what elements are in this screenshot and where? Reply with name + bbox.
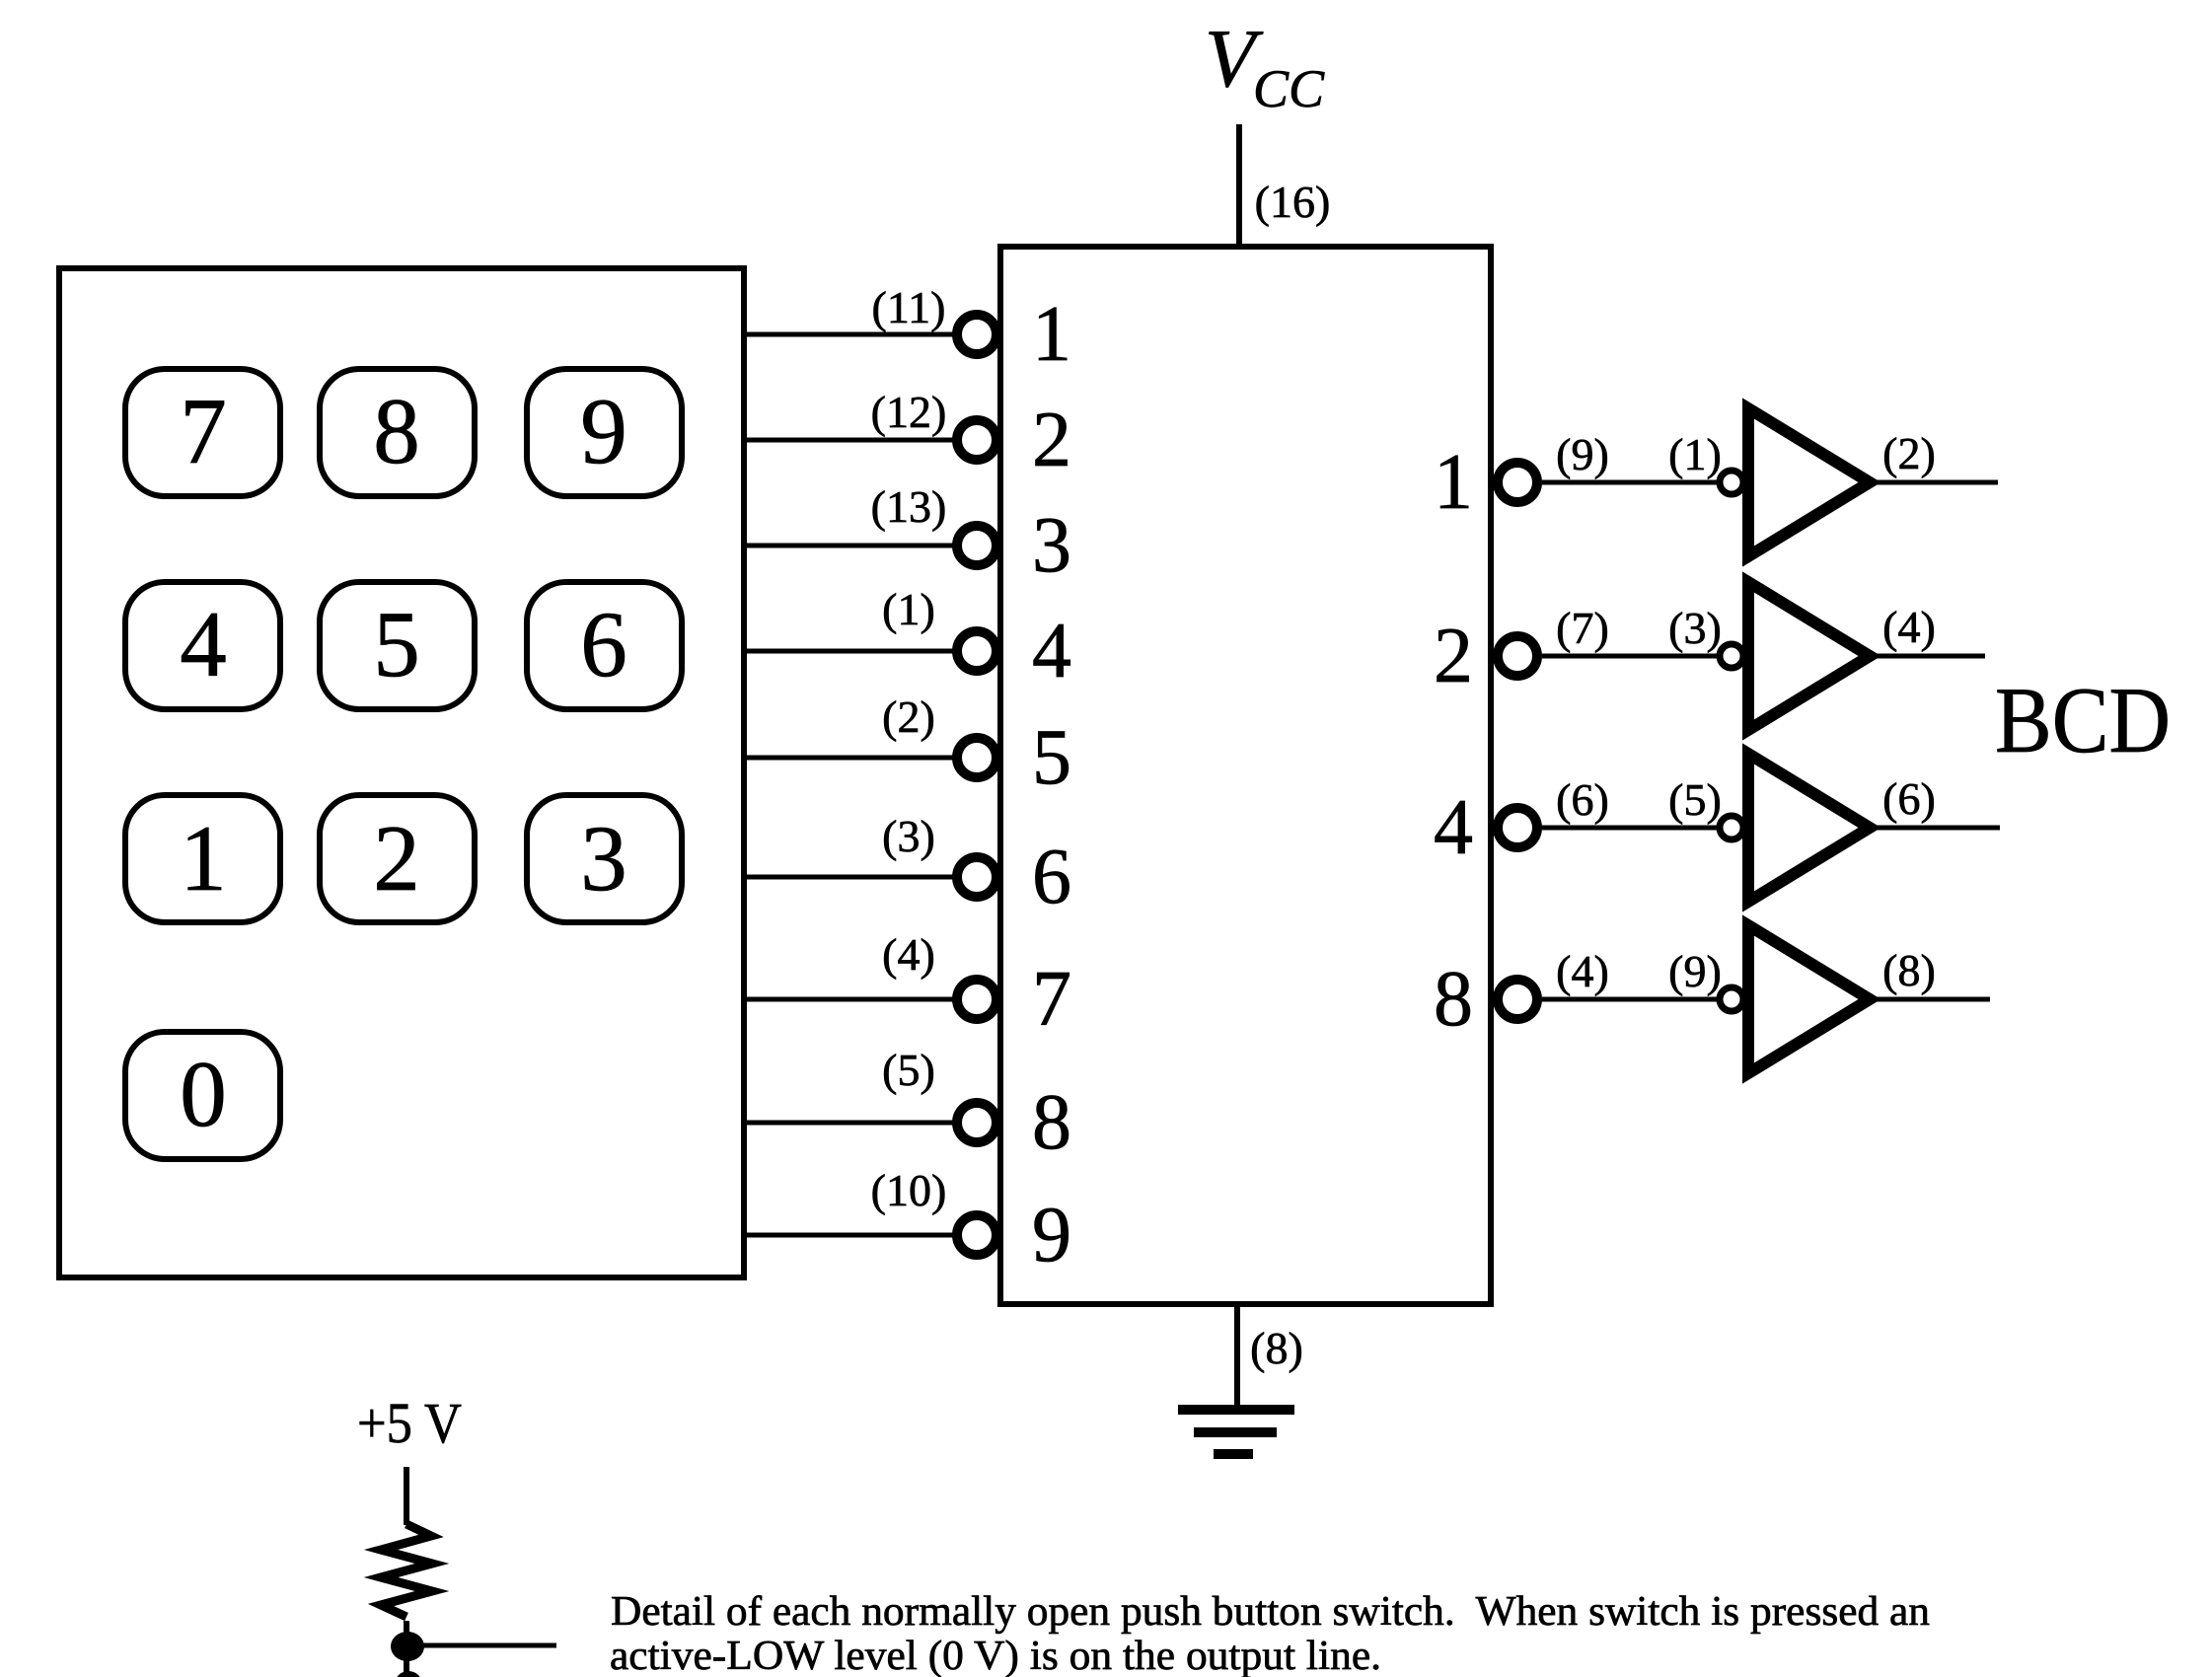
keypad line pin label (11) [872, 282, 946, 332]
wire output 4 to inverter [1542, 826, 1719, 831]
encoder input label 9 [1032, 1192, 1071, 1278]
input pin circle 1 [957, 315, 996, 354]
keypad line pin label (13) [871, 481, 947, 532]
pushbutton 1 [125, 795, 280, 922]
svg-text:BCD: BCD [1995, 668, 2171, 772]
inverter U4 triangle [1748, 754, 1870, 902]
inverter U5 input bubble [1720, 987, 1743, 1011]
node junction dot [391, 1632, 424, 1661]
inverter U3 input bubble [1720, 644, 1743, 668]
pushbutton 4 [125, 582, 280, 709]
svg-text:(10): (10) [871, 1165, 947, 1215]
wire inverter 2 output [1876, 654, 1985, 659]
svg-text:2: 2 [1032, 397, 1071, 483]
caption line 2 [610, 1634, 1381, 1677]
pin 16 label (16) [1255, 177, 1331, 227]
pushbutton 3 [527, 795, 682, 922]
BCD output bus label [1995, 668, 2171, 772]
wire output 2 to inverter [1542, 654, 1719, 659]
svg-text:(6): (6) [1556, 774, 1609, 825]
input pin circle 3 [957, 526, 996, 565]
keypad line pin label (12) [871, 387, 947, 437]
keypad line pin label (2) [882, 692, 935, 742]
encoder output label 4 [1434, 784, 1473, 871]
output pin circle 1 [1498, 463, 1537, 502]
wire keypad to encoder input 2 [744, 438, 953, 443]
svg-text:(7): (7) [1556, 603, 1609, 653]
wire keypad to encoder input 5 [744, 756, 953, 761]
encoder output label 1 [1434, 439, 1473, 526]
svg-text:8: 8 [1032, 1079, 1071, 1166]
svg-text:(4): (4) [882, 929, 935, 980]
keypad line pin label (10) [871, 1165, 947, 1215]
svg-text:(8): (8) [1882, 945, 1936, 995]
encoder output label 2 [1434, 613, 1473, 699]
output pin circle 2 [1498, 636, 1537, 676]
input pin circle 7 [957, 980, 996, 1019]
svg-text:(1): (1) [1668, 429, 1722, 479]
svg-text:6: 6 [580, 592, 627, 696]
inverter output pin label (6) [1882, 773, 1936, 824]
svg-text:2: 2 [1434, 613, 1473, 699]
pin 8 ground label (8) [1250, 1323, 1303, 1373]
svg-text:(11): (11) [872, 282, 946, 332]
wire keypad to encoder input 8 [744, 1121, 953, 1126]
inverter output pin label (8) [1882, 945, 1936, 995]
keypad line pin label (3) [882, 811, 935, 861]
+5 V supply label [357, 1391, 462, 1455]
output pin circle 4 [1498, 808, 1537, 847]
inverter U2 triangle [1748, 408, 1870, 556]
wire inverter 8 output [1876, 997, 1990, 1002]
inverter U5 triangle [1748, 925, 1870, 1073]
input pin circle 8 [957, 1103, 996, 1142]
svg-text:(9): (9) [1556, 429, 1609, 479]
svg-text:9: 9 [1032, 1192, 1071, 1278]
encoder U1 box (74HC147) [1000, 247, 1491, 1304]
svg-text:(4): (4) [1882, 602, 1936, 652]
wire +5V to resistor [404, 1467, 409, 1525]
svg-text:CC: CC [1253, 59, 1325, 118]
svg-text:(1): (1) [882, 584, 935, 634]
inverter output pin label (2) [1882, 428, 1936, 478]
input pin circle 4 [957, 631, 996, 671]
inverter input pin label (1) [1668, 429, 1722, 479]
inverter input pin label (9) [1668, 946, 1722, 996]
inverter U4 input bubble [1720, 816, 1743, 839]
svg-text:3: 3 [580, 806, 627, 911]
encoder pin label (6) [1556, 774, 1609, 825]
svg-text:7: 7 [1032, 956, 1071, 1043]
svg-text:8: 8 [373, 379, 420, 483]
svg-text:(2): (2) [882, 692, 935, 742]
svg-text:(5): (5) [882, 1045, 935, 1095]
keypad line pin label (4) [882, 929, 935, 980]
wire output 1 to inverter [1542, 480, 1719, 485]
wire keypad to encoder input 3 [744, 544, 953, 548]
wire output 8 to inverter [1542, 997, 1719, 1002]
VCC supply wire [1236, 124, 1242, 247]
svg-text:1: 1 [180, 806, 227, 911]
pushbutton 8 [320, 369, 475, 496]
svg-text:(16): (16) [1255, 177, 1331, 227]
wire keypad to encoder input 4 [744, 649, 953, 654]
svg-text:Detail of each normally open p: Detail of each normally open push button… [611, 1589, 1930, 1635]
encoder output label 8 [1434, 956, 1473, 1043]
input pin circle 9 [957, 1215, 996, 1255]
wire keypad to encoder input 1 [744, 332, 953, 337]
ground wire from pin 8 [1234, 1304, 1240, 1405]
encoder input label 7 [1032, 956, 1071, 1043]
encoder input label 6 [1032, 834, 1071, 920]
pushbutton 7 [125, 369, 280, 496]
svg-text:(5): (5) [1668, 774, 1722, 825]
encoder pin label (7) [1556, 603, 1609, 653]
wire keypad to encoder input 7 [744, 997, 953, 1002]
svg-text:4: 4 [1032, 608, 1071, 694]
inverter output pin label (4) [1882, 602, 1936, 652]
encoder pin label (4) [1556, 946, 1609, 996]
svg-text:(2): (2) [1882, 428, 1936, 478]
encoder pin label (9) [1556, 429, 1609, 479]
pushbutton 9 [527, 369, 682, 496]
wire node to switch [404, 1657, 409, 1677]
svg-text:(13): (13) [871, 481, 947, 532]
svg-text:(3): (3) [882, 811, 935, 861]
svg-text:+5 V: +5 V [357, 1391, 462, 1455]
svg-text:1: 1 [1434, 439, 1473, 526]
wire keypad to encoder input 6 [744, 875, 953, 880]
inverter input pin label (5) [1668, 774, 1722, 825]
svg-text:8: 8 [1434, 956, 1473, 1043]
svg-text:5: 5 [373, 592, 420, 696]
VCC label [1205, 13, 1325, 118]
pushbutton 0 [125, 1032, 280, 1159]
resistor R1 (pull-up) [381, 1524, 432, 1617]
svg-text:6: 6 [1032, 834, 1071, 920]
encoder input label 5 [1032, 714, 1071, 801]
svg-text:4: 4 [180, 592, 227, 696]
keypad line pin label (1) [882, 584, 935, 634]
inverter input pin label (3) [1668, 603, 1722, 653]
wire keypad to encoder input 9 [744, 1233, 953, 1238]
output pin circle 8 [1498, 980, 1537, 1019]
svg-text:(8): (8) [1250, 1323, 1303, 1373]
svg-text:(9): (9) [1668, 946, 1722, 996]
input pin circle 5 [957, 738, 996, 777]
svg-text:2: 2 [373, 806, 420, 911]
keypad box [59, 268, 744, 1277]
svg-text:3: 3 [1032, 502, 1071, 589]
svg-text:4: 4 [1434, 784, 1473, 871]
svg-text:(6): (6) [1882, 773, 1936, 824]
svg-text:(3): (3) [1668, 603, 1722, 653]
svg-text:9: 9 [580, 379, 627, 483]
input pin circle 6 [957, 857, 996, 897]
wire resistor to node [404, 1621, 409, 1636]
svg-text:(4): (4) [1556, 946, 1609, 996]
svg-text:0: 0 [180, 1042, 227, 1146]
caption line 1 [611, 1589, 1930, 1635]
inverter U2 input bubble [1720, 471, 1743, 494]
keypad line pin label (5) [882, 1045, 935, 1095]
encoder input label 8 [1032, 1079, 1071, 1166]
inverter U3 triangle [1748, 582, 1870, 730]
svg-text:7: 7 [180, 379, 227, 483]
svg-text:1: 1 [1032, 291, 1071, 378]
pushbutton 5 [320, 582, 475, 709]
wire inverter 1 output [1876, 480, 1998, 485]
wire inverter 4 output [1876, 826, 2000, 831]
svg-text:active-LOW level (0 V) is on t: active-LOW level (0 V) is on the output … [610, 1634, 1381, 1677]
svg-text:(12): (12) [871, 387, 947, 437]
svg-text:5: 5 [1032, 714, 1071, 801]
ground symbol [1178, 1410, 1294, 1454]
input pin circle 2 [957, 420, 996, 460]
wire node to output line [419, 1643, 556, 1648]
pushbutton 6 [527, 582, 682, 709]
pushbutton 2 [320, 795, 475, 922]
encoder input label 2 [1032, 397, 1071, 483]
encoder input label 3 [1032, 502, 1071, 589]
encoder input label 4 [1032, 608, 1071, 694]
switch contact dot (clipped) [396, 1671, 421, 1677]
encoder input label 1 [1032, 291, 1071, 378]
